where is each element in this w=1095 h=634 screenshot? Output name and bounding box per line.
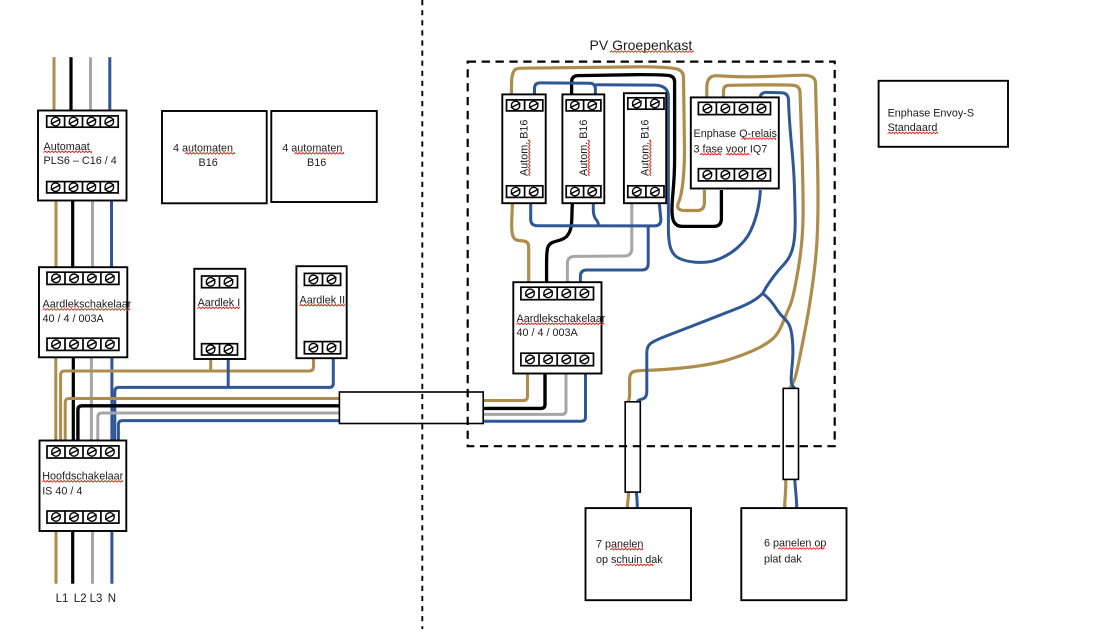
- wire tan Autom1 top feed to Q-relais bottom: [511, 67, 704, 211]
- wire N blue below Hoofdschakelaar: [110, 531, 113, 584]
- wire black PV Aardlekschakelaar to Autom2 bottom: [547, 203, 573, 282]
- wire gray Autom3 bottom to PV Aardlekschakelaar: [567, 203, 631, 282]
- wire tan Q-relais top2 inner loop sweeping to left conduit: [628, 85, 803, 402]
- wire L1 tan below Hoofdschakelaar: [55, 531, 58, 584]
- wire black conduit to PV Aardlekschakelaar: [483, 374, 545, 409]
- box 4 automaten B16 first: [162, 111, 267, 203]
- wire gray conduit to PV Aardlekschakelaar: [483, 374, 566, 415]
- wire tan run to conduit: [65, 399, 339, 441]
- title PV Groepenkast: [590, 37, 694, 53]
- breaker Autom B16 first: [502, 94, 545, 203]
- box 4 automaten B16 second: [271, 111, 377, 202]
- wire N blue supply top: [108, 57, 111, 110]
- wire tan Aardlekschakelaar to Hoofdschakelaar: [54, 357, 57, 440]
- svg-text:40 / 4 / 003A: 40 / 4 / 003A: [43, 313, 105, 325]
- wire blue junction branch to right conduit: [763, 293, 796, 388]
- RCD Aardlek II: [296, 266, 346, 358]
- wire tan bus to Aardlek I and II: [61, 354, 314, 441]
- svg-text:Enphase Envoy-S: Enphase Envoy-S: [888, 108, 974, 120]
- svg-text:B16: B16: [307, 157, 326, 169]
- RCD Aardlek I: [194, 269, 245, 359]
- wire black Aardlekschakelaar to Hoofdschakelaar: [72, 357, 75, 440]
- wire blue right conduit to 6 panelen: [795, 479, 797, 508]
- labels L1 L2 L3 N: [56, 593, 116, 605]
- wire tan right conduit to 6 panelen: [785, 479, 786, 508]
- wire blue riser Aardlek I: [227, 355, 230, 388]
- wire blue conduit to PV Aardlekschakelaar: [483, 374, 585, 422]
- RCD Aardlekschakelaar 40/4/003A left: [39, 267, 132, 357]
- conduit to 6 panelen: [783, 388, 798, 479]
- wire tan Q-relais top1 outer loop down right side: [707, 75, 818, 388]
- wire N blue Automaat to Aardlekschakelaar: [110, 201, 113, 268]
- conduit to 7 panelen: [625, 402, 640, 492]
- wire L2 black supply top: [69, 57, 72, 110]
- wire tan riser Aardlek I: [209, 355, 212, 372]
- svg-text:N: N: [108, 593, 116, 605]
- svg-text:plat dak: plat dak: [764, 553, 802, 565]
- wire blue Autom2 bottom drop to bus: [593, 203, 598, 226]
- wire gray run to conduit: [98, 413, 340, 441]
- svg-text:40 / 4 / 003A: 40 / 4 / 003A: [517, 327, 579, 339]
- svg-text:Enphase Q-relais: Enphase Q-relais: [694, 128, 778, 140]
- svg-text:B16: B16: [199, 157, 218, 169]
- wire L1 tan supply top: [53, 57, 56, 110]
- wire gray Aardlekschakelaar to Hoofdschakelaar: [90, 357, 93, 440]
- main switch Hoofdschakelaar IS 40/4: [40, 441, 127, 532]
- circuit breaker Automaat PLS6-C16/4: [38, 111, 127, 201]
- svg-text:L2: L2: [74, 593, 87, 605]
- PV Groepenkast dashed enclosure: [468, 62, 835, 447]
- cable conduit between pages: [339, 392, 483, 424]
- relay Enphase Q-relais 3 fase voor IQ7: [691, 97, 779, 188]
- wire L3 gray below Hoofdschakelaar: [91, 531, 94, 584]
- wire blue junction branch to left conduit: [637, 293, 762, 402]
- svg-text:L3: L3: [90, 593, 103, 605]
- breaker Autom B16 second: [562, 94, 604, 203]
- wire L2 black Automaat to Aardlekschakelaar: [71, 201, 74, 268]
- wire blue bus under Autom boxes: [531, 203, 661, 226]
- wire blue run to conduit: [118, 421, 339, 441]
- wire blue bus segment to right and down with dip to Q-relais: [595, 85, 760, 263]
- wire blue left conduit to 7 panelen: [635, 492, 639, 508]
- wire blue Autom tops bus to Q-relais bottom: [535, 83, 596, 95]
- wire L2 black below Hoofdschakelaar: [71, 531, 74, 584]
- svg-text:IS 40 / 4: IS 40 / 4: [42, 486, 82, 498]
- wire blue Q-relais top4 down to junction: [760, 92, 795, 293]
- svg-text:PV Groepenkast: PV Groepenkast: [590, 37, 693, 53]
- RCD PV Aardlekschakelaar 40/4/003A: [513, 282, 605, 373]
- wire blue bus drop to PV Aardlekschakelaar: [580, 226, 648, 283]
- svg-text:PLS6 – C16 / 4: PLS6 – C16 / 4: [44, 155, 117, 167]
- wire tan left conduit to 7 panelen: [627, 492, 628, 508]
- page divider dashed line: [421, 0, 423, 629]
- box Enphase Envoy-S Standaard: [879, 81, 1008, 147]
- wire tan PV Aardlekschakelaar to Autom1 bottom: [512, 203, 529, 282]
- wire black run to conduit: [78, 406, 340, 441]
- wire L3 gray supply top: [89, 57, 92, 110]
- box 6 panelen op plat dak: [741, 508, 846, 600]
- wire tan conduit to PV Aardlekschakelaar: [483, 374, 527, 401]
- wire blue bus to Aardlek I and II: [115, 354, 333, 441]
- wire L3 gray Automaat to Aardlekschakelaar: [91, 201, 94, 268]
- box 7 panelen op schuin dak: [586, 508, 692, 600]
- svg-text:L1: L1: [56, 593, 69, 605]
- wire L1 tan Automaat to Aardlekschakelaar: [55, 201, 58, 268]
- wire blue Aardlekschakelaar to Hoofdschakelaar: [110, 357, 113, 440]
- wire black Autom2 top feed to Q-relais bottom: [572, 75, 722, 227]
- breaker Autom B16 third: [624, 93, 666, 203]
